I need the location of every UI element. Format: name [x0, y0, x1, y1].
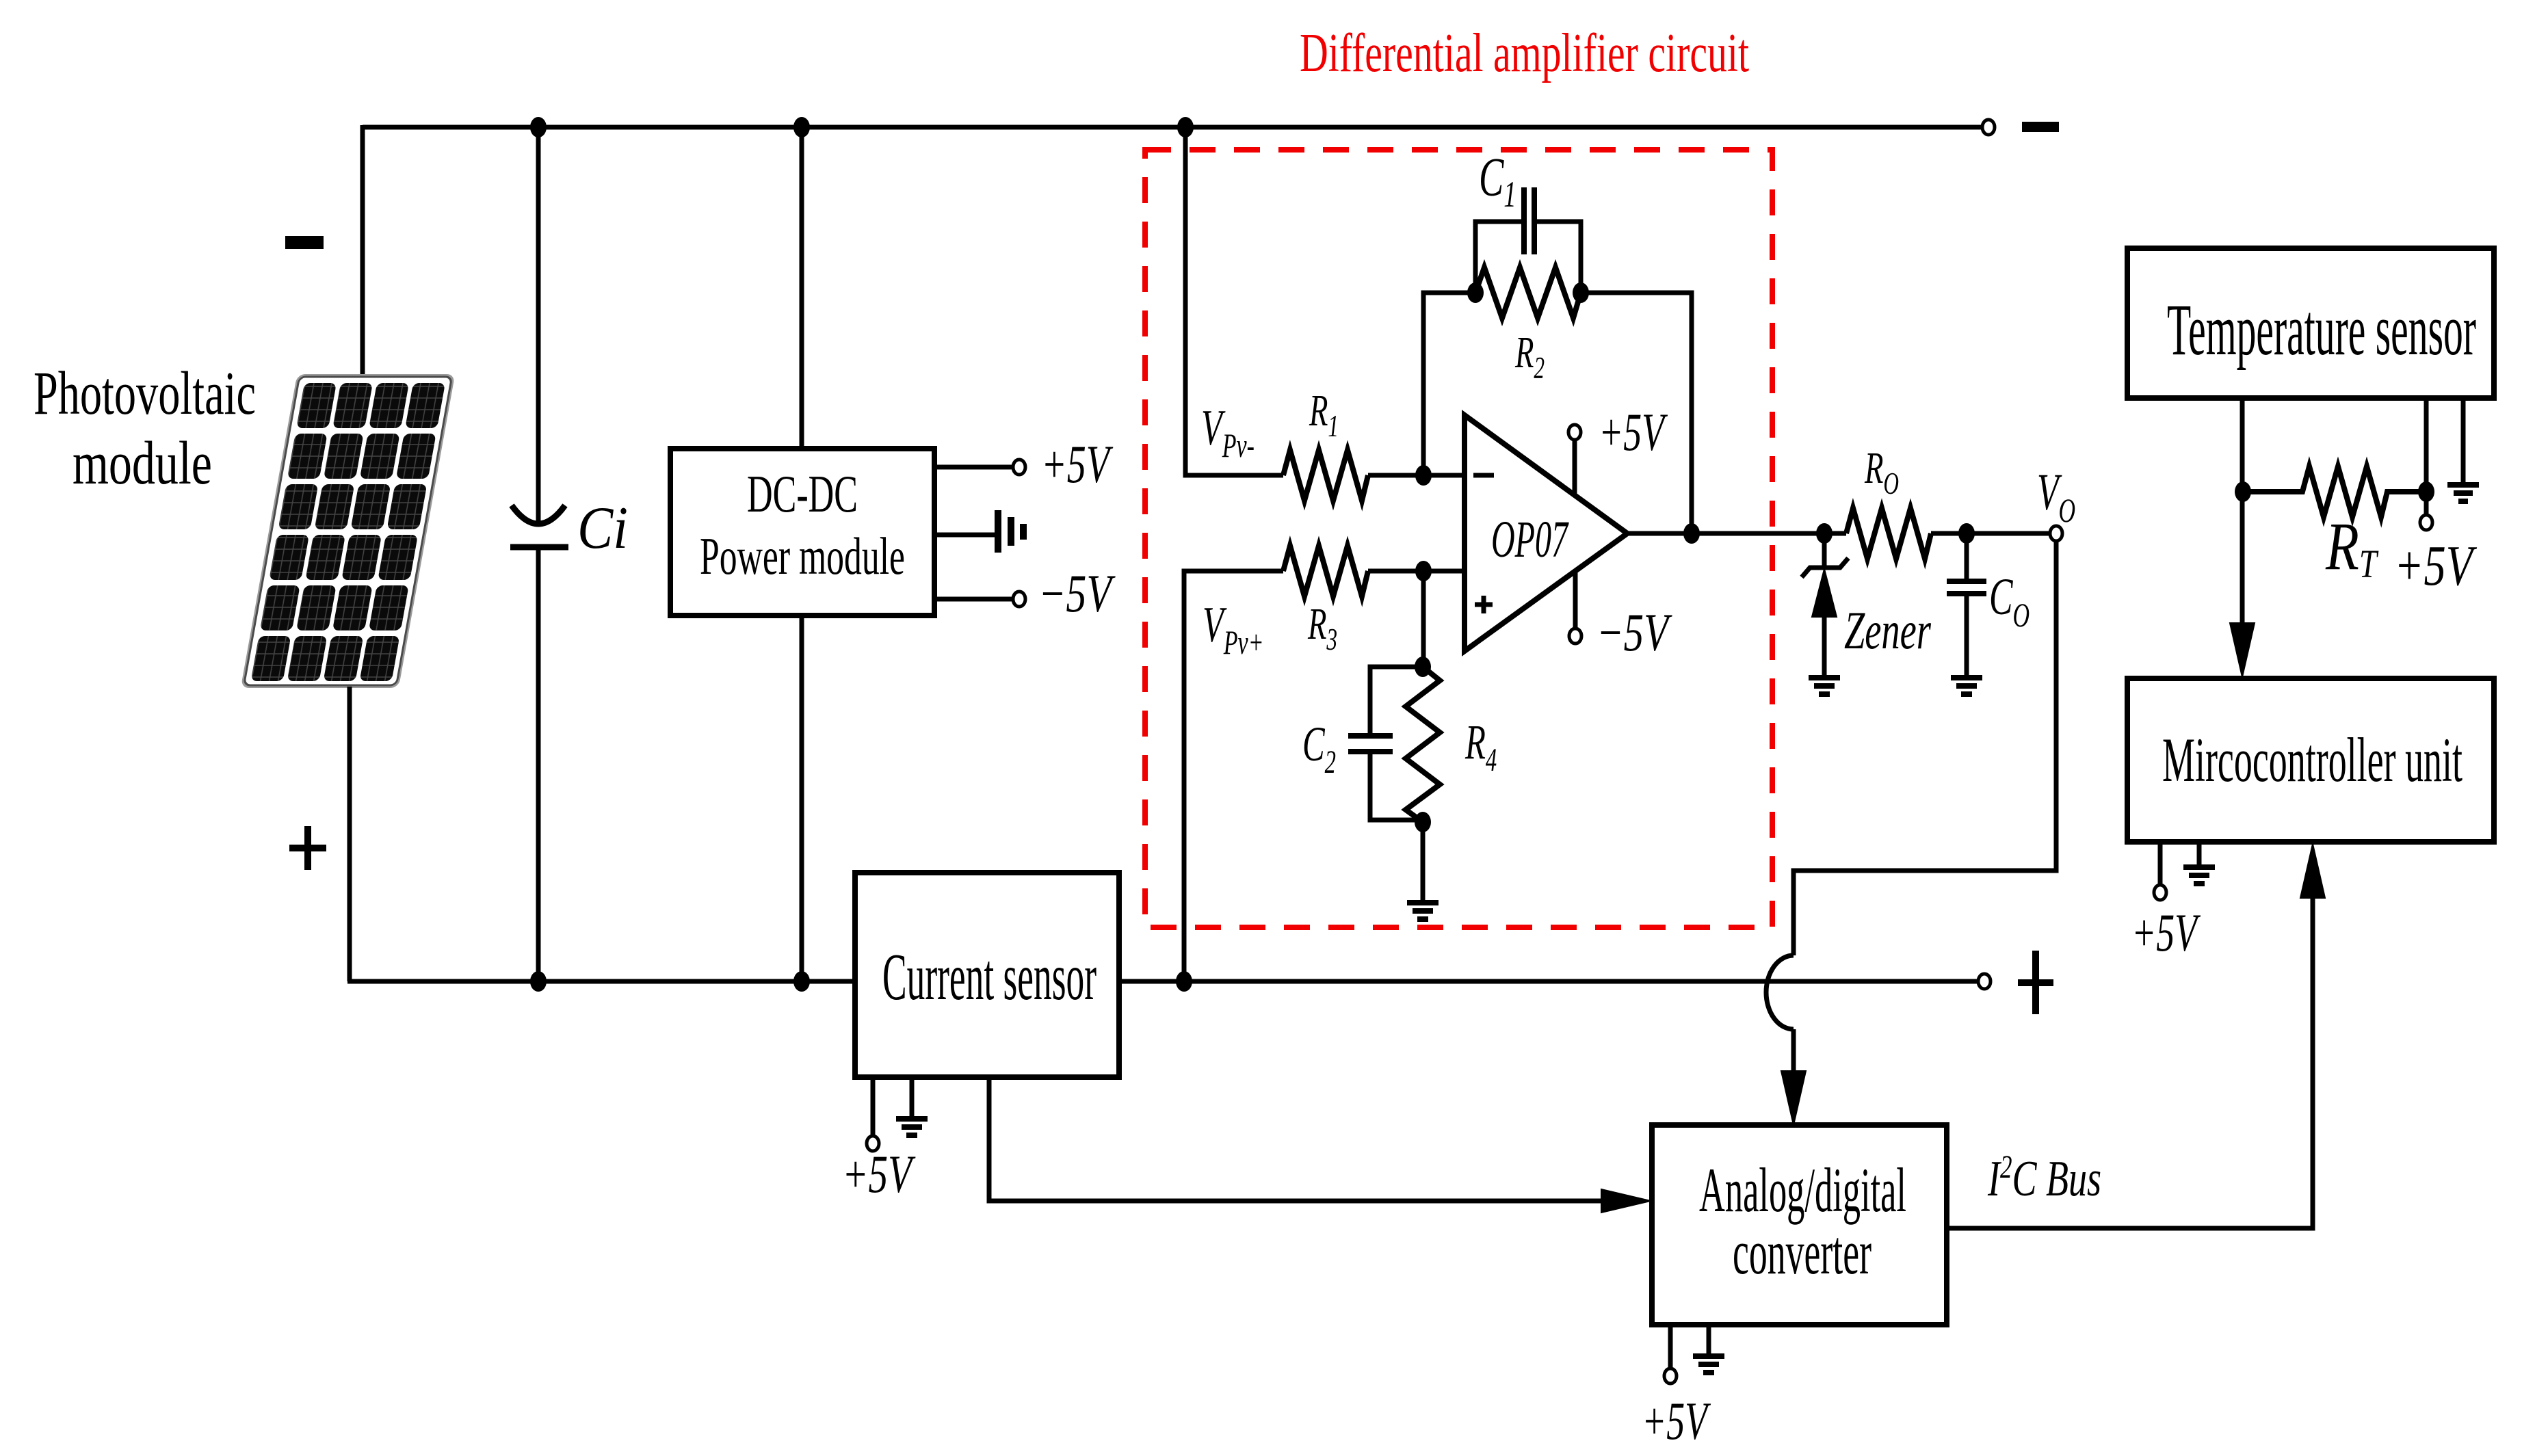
wire bottom positive rail right segment — [1119, 979, 1978, 984]
wire RT right up to temperature sensor — [2424, 398, 2429, 492]
wire current sensor output to ADC — [989, 1077, 1604, 1201]
red dashed boundary differential amplifier circuit — [1145, 150, 1772, 927]
terminal +5V circle of MCU — [2154, 885, 2166, 900]
resistor R2 — [1475, 267, 1581, 318]
svg-text:DC-DC: DC-DC — [747, 464, 858, 523]
wire VPv+ from bottom rail to R3 — [1184, 571, 1283, 981]
pin +5V of current sensor — [871, 1077, 876, 1137]
capacitor C1 — [1524, 187, 1534, 254]
svg-text:OP07: OP07 — [1491, 511, 1569, 568]
svg-text:Zener: Zener — [1844, 600, 1931, 660]
wire I2C bus from ADC to MCU — [1947, 899, 2313, 1228]
photovoltaic module PV panel — [241, 374, 456, 688]
wire +5V pin of DC-DC — [934, 465, 1013, 470]
terminal +5V circle at RT — [2420, 515, 2432, 530]
svg-text:converter: converter — [1733, 1217, 1871, 1287]
terminal -5V circle of op-amp — [1569, 628, 1581, 644]
arrow into ADC left — [1601, 1189, 1651, 1213]
ground below ADC — [1693, 1356, 1724, 1373]
ground pin of current sensor — [910, 1077, 915, 1117]
node RT right — [2418, 481, 2434, 502]
capacitor Ci — [536, 127, 541, 522]
label minus sign at PV module — [285, 236, 324, 249]
wire from non-inverting node down to R4 — [1421, 571, 1426, 667]
terminal +5V circle of current sensor — [867, 1136, 879, 1151]
wire -5V pin of DC-DC — [934, 597, 1013, 602]
svg-text:−5V: −5V — [1038, 564, 1116, 623]
box current sensor — [855, 873, 1119, 1077]
node zener tap — [1816, 523, 1833, 544]
wire hop to ADC arrow — [1791, 1029, 1796, 1074]
svg-text:Temperature sensor: Temperature sensor — [2167, 290, 2476, 371]
ground below temperature sensor — [2447, 485, 2479, 501]
resistor RT — [2243, 466, 2419, 517]
ground pin of temperature sensor — [2461, 398, 2466, 483]
wire PV module positive lead — [347, 687, 352, 981]
wire DC-DC bottom lead — [800, 616, 804, 981]
wire op-amp output — [1627, 531, 1846, 536]
wire R4 to ground — [1421, 822, 1426, 901]
svg-text:Power module: Power module — [700, 527, 905, 585]
terminal +5V circle of op-amp — [1568, 425, 1581, 440]
box DC-DC power module — [670, 449, 934, 616]
svg-text:Photovoltaic: Photovoltaic — [34, 360, 256, 427]
svg-text:+5V: +5V — [2394, 534, 2478, 598]
ground pin of MCU — [2197, 842, 2202, 865]
svg-text:−5V: −5V — [1597, 603, 1672, 662]
svg-text:Differential amplifier circuit: Differential amplifier circuit — [1300, 23, 1749, 83]
pin +5V of ADC — [1668, 1325, 1673, 1369]
node junction top rail / Ci — [530, 117, 547, 137]
wire R1 to op-amp inverting input — [1368, 473, 1466, 478]
wire C1 loop right — [1537, 222, 1581, 293]
resistor R4 — [1406, 667, 1440, 822]
terminal +5V circle of DC-DC — [1013, 460, 1025, 475]
wire C1 loop left — [1475, 222, 1521, 293]
terminal minus output circle — [1982, 120, 1995, 135]
ground below current sensor — [896, 1119, 928, 1135]
label plus sign right — [2018, 951, 2053, 1014]
svg-text:Current sensor: Current sensor — [882, 940, 1096, 1014]
pin +5V of op-amp — [1573, 438, 1577, 495]
pin +5V of MCU — [2158, 842, 2163, 886]
wire temperature sensor to MCU — [2240, 398, 2245, 624]
wire hop arc over positive rail — [1766, 955, 1794, 1029]
node R4 bottom — [1415, 812, 1431, 832]
node non-inverting input — [1415, 561, 1432, 581]
svg-text:+5V: +5V — [1599, 402, 1668, 462]
wire DC-DC top lead — [800, 127, 804, 449]
node R2 left — [1467, 282, 1484, 303]
wire feedback right leg — [1581, 293, 1692, 533]
ground pin of DC-DC — [934, 533, 995, 538]
node R2 right — [1573, 282, 1589, 303]
resistor R1 — [1283, 450, 1368, 501]
terminal -5V circle of DC-DC — [1013, 592, 1025, 607]
wire VPv- from top rail to R1 — [1185, 127, 1283, 475]
node RT left — [2235, 481, 2251, 502]
resistor R3 — [1283, 546, 1368, 596]
svg-text:+5V: +5V — [2131, 903, 2201, 962]
box microcontroller unit — [2127, 678, 2494, 842]
svg-text:Mircocontroller unit: Mircocontroller unit — [2162, 725, 2462, 795]
op-amp U1 OP07 — [1464, 415, 1627, 651]
svg-text:module: module — [73, 429, 212, 497]
wire feedback left leg — [1423, 293, 1475, 475]
ground below zener — [1809, 678, 1840, 694]
wire RT right to +5V terminal — [2424, 492, 2429, 515]
arrow into MCU top — [2230, 623, 2255, 677]
terminal plus output circle — [1978, 974, 1991, 989]
svg-text:Analog/digital: Analog/digital — [1699, 1155, 1906, 1225]
svg-text:+5V: +5V — [1041, 434, 1114, 494]
node junction top rail / VPv- — [1177, 117, 1194, 137]
wire bottom positive rail left segment — [347, 979, 855, 984]
resistor RO — [1846, 508, 1931, 559]
label plus sign at PV module — [289, 826, 326, 870]
label minus sign right — [2022, 122, 2059, 132]
svg-text:+5V: +5V — [842, 1144, 916, 1204]
label op-amp minus — [1473, 473, 1494, 478]
wire VO feedback down to ADC with hop — [1794, 541, 2056, 955]
wire RO to VO terminal — [1931, 531, 2050, 536]
node output feedback — [1683, 523, 1700, 544]
svg-text:+5V: +5V — [1642, 1391, 1711, 1451]
diode zener — [1822, 533, 1827, 568]
ground below MCU — [2183, 867, 2215, 884]
box analog/digital converter — [1652, 1125, 1947, 1325]
node junction bottom rail / Ci — [530, 971, 547, 992]
arrow into MCU bottom — [2300, 844, 2325, 898]
ground pin of ADC — [1707, 1325, 1711, 1354]
ground below R4 — [1407, 903, 1439, 919]
wire top negative rail — [363, 125, 1982, 130]
svg-text:Ci: Ci — [577, 495, 628, 561]
wire left drop from top rail to PV module — [360, 125, 365, 375]
terminal VO circle — [2050, 526, 2062, 541]
pin -5V of op-amp — [1573, 571, 1578, 630]
wire R3 to op-amp non-inverting input — [1368, 569, 1466, 574]
box temperature sensor — [2127, 248, 2494, 398]
label op-amp plus — [1475, 596, 1493, 613]
node R4 top — [1415, 657, 1431, 677]
node junction bottom rail / VPv+ — [1176, 971, 1192, 992]
node junction top rail / DC-DC — [793, 117, 810, 137]
node inverting input — [1415, 465, 1432, 486]
capacitor C2 — [1348, 736, 1393, 752]
capacitor CO — [1965, 533, 1969, 579]
terminal +5V circle of ADC — [1664, 1368, 1677, 1384]
node junction bottom rail / DC-DC — [793, 971, 810, 992]
node CO tap — [1958, 523, 1975, 544]
wire C2 branch — [1370, 667, 1423, 820]
arrow into ADC top — [1781, 1071, 1806, 1125]
ground below CO — [1951, 678, 1982, 694]
